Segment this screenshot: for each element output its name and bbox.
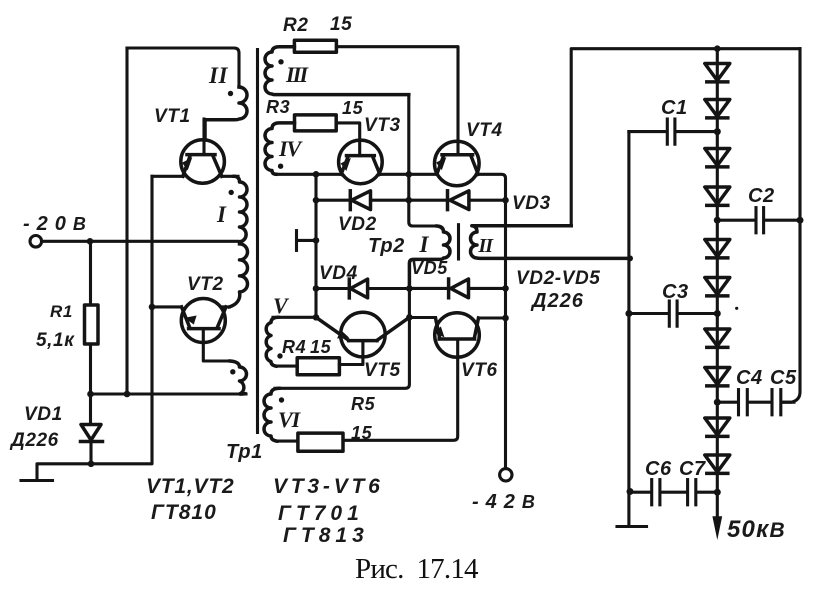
node VT2 emitter bus xyxy=(149,304,156,311)
HV rectifier column wire xyxy=(716,49,719,517)
svg-text:Тр1: Тр1 xyxy=(226,441,263,463)
svg-text:VT1: VT1 xyxy=(154,106,191,127)
wire input to winding I center tap xyxy=(42,240,238,243)
svg-text:15: 15 xyxy=(310,337,332,357)
wire VT2 collector to winding xyxy=(221,305,230,308)
svg-text:C6: C6 xyxy=(645,458,672,480)
node C2 tap xyxy=(714,217,721,224)
wire VT6 collector to -42V line xyxy=(479,316,506,319)
wire HV riser to ladder top xyxy=(571,49,800,226)
svg-text:Д226: Д226 xyxy=(9,430,59,451)
core of transformer Tr1 xyxy=(256,50,259,433)
transistor VT4 xyxy=(435,141,480,186)
node C4 C5 tap xyxy=(714,399,721,406)
terminal -42V xyxy=(500,469,512,481)
svg-text:R4: R4 xyxy=(282,337,306,357)
diode D2 ladder xyxy=(705,100,730,118)
svg-text:VT3-VT6: VT3-VT6 xyxy=(273,475,384,498)
node ladder top xyxy=(714,45,721,52)
svg-text:VD4: VD4 xyxy=(319,263,358,284)
svg-text:VT6: VT6 xyxy=(461,360,498,381)
wire R5 right to VT6 base xyxy=(343,339,458,440)
node VT5 collector junction xyxy=(406,314,413,321)
svg-text:C5: C5 xyxy=(770,367,797,389)
transformer Tr2 winding II xyxy=(471,226,629,259)
capacitor C4 xyxy=(717,390,770,415)
wire R1 bottom lead xyxy=(89,344,92,394)
diode D1 ladder xyxy=(705,64,730,82)
node VT6 collector junction xyxy=(502,315,509,322)
diode D8 ladder xyxy=(705,368,730,386)
svg-text:Тр2: Тр2 xyxy=(368,235,405,257)
svg-text:I: I xyxy=(216,202,227,227)
winding I upper half of Tr1 xyxy=(234,176,247,242)
transformer Tr2 winding I xyxy=(409,226,450,285)
transistor VT6 (inverted) xyxy=(434,313,480,358)
capacitor C2 xyxy=(717,208,800,233)
winding II of Tr1 (feedback to VT1 base) xyxy=(205,87,247,140)
wire left branch vertical (VD2 VD4 column) xyxy=(314,174,317,317)
winding III of Tr1 xyxy=(265,47,409,95)
transistor VT5 (inverted) xyxy=(316,312,409,357)
winding I lower half of Tr1 xyxy=(230,244,248,307)
resistor R2 xyxy=(294,40,336,52)
wire VT3 collector to VT4 emitter xyxy=(409,173,437,176)
node VD4 right xyxy=(406,285,413,292)
wire R1 top lead xyxy=(89,241,92,305)
diode D5 ladder xyxy=(705,240,730,258)
node left column winding II feed xyxy=(627,255,633,261)
wire VT4 collector to -42V vertical xyxy=(478,174,505,468)
wire VT3 collector to center node xyxy=(380,173,409,176)
polarity dot winding I upper xyxy=(229,190,234,195)
svg-text:Д226: Д226 xyxy=(530,290,584,312)
arrow 50kV output xyxy=(712,516,722,540)
wire center vertical (winding III bottom down to Tr2 winding I) xyxy=(409,95,438,226)
node R1 bottom / VD1 anode xyxy=(87,391,94,398)
svg-text:ГТ813: ГТ813 xyxy=(283,524,369,547)
wire VD5 node down through VT5 collector to winding VI xyxy=(275,288,409,388)
wire long bottom feedback (R1 node to winding bottom) xyxy=(91,392,247,395)
svg-text:R3: R3 xyxy=(266,97,290,117)
wire R3 to VT3 base xyxy=(336,123,360,156)
transistor VT3 xyxy=(339,140,383,184)
resistor R1 xyxy=(85,305,99,344)
core of transformer Tr2 xyxy=(457,225,460,259)
diode D7 ladder xyxy=(705,329,730,347)
ground right column xyxy=(617,525,647,528)
diode VD4 xyxy=(316,279,409,298)
node VD3 right xyxy=(502,197,509,204)
polarity dot lower feedback winding xyxy=(230,369,235,374)
svg-text:5,1к: 5,1к xyxy=(36,330,75,351)
capacitor C5 xyxy=(772,390,794,415)
wire to ground xyxy=(37,464,91,479)
wire VT1 emitter horizontal xyxy=(152,175,183,178)
node VT5 emitter junction xyxy=(313,314,320,321)
node C6 left xyxy=(627,488,634,495)
svg-text:VT1,VT2: VT1,VT2 xyxy=(146,475,234,498)
wire R5 left lead xyxy=(277,440,298,443)
node VD4 left xyxy=(313,285,320,292)
svg-text:-42В: -42В xyxy=(472,491,542,513)
diode VD3 xyxy=(409,191,506,210)
node VD2 right center tap xyxy=(406,197,413,204)
node VD2 left xyxy=(313,197,320,204)
wire HV ladder top bus xyxy=(783,49,800,403)
polarity dot winding VI xyxy=(279,397,284,402)
svg-text:50кВ: 50кВ xyxy=(727,516,786,543)
svg-text:III: III xyxy=(285,62,310,87)
svg-text:C7: C7 xyxy=(679,458,706,480)
svg-text:V: V xyxy=(273,293,290,318)
ground xyxy=(21,479,53,482)
svg-text:C3: C3 xyxy=(662,281,689,303)
capacitor C7 xyxy=(688,480,718,505)
diode VD2 xyxy=(316,191,409,210)
polarity dot winding II xyxy=(228,91,233,96)
speck artifact xyxy=(735,307,738,310)
svg-text:VD3: VD3 xyxy=(512,193,551,214)
diode D4 ladder xyxy=(705,187,730,205)
node rectangle left edge bottom xyxy=(124,391,131,398)
svg-text:VT5: VT5 xyxy=(364,360,401,381)
svg-text:IV: IV xyxy=(278,136,304,161)
node C1 tap xyxy=(714,128,721,135)
winding IV of Tr1 xyxy=(265,123,295,174)
svg-text:R2: R2 xyxy=(283,15,309,36)
wire collector frame left edge xyxy=(125,48,128,394)
wire R4 left lead xyxy=(276,365,297,368)
wire winding IV to VT3 emitter row xyxy=(276,173,341,176)
wire VT5 collector to VT6 emitter xyxy=(409,316,435,319)
node VD5 right xyxy=(502,285,509,292)
diode D3 ladder xyxy=(705,149,730,167)
svg-text:VD2-VD5: VD2-VD5 xyxy=(516,268,600,289)
resistor R4 xyxy=(297,358,339,375)
svg-text:ГТ810: ГТ810 xyxy=(151,501,217,524)
node R1 top xyxy=(87,238,94,245)
diode D10 ladder xyxy=(705,455,730,473)
svg-text:VT3: VT3 xyxy=(364,115,401,136)
winding feedback VT2 base (lower chain) xyxy=(230,361,247,394)
node VT3 collector / vertical xyxy=(406,171,413,178)
svg-text:VI: VI xyxy=(278,407,302,432)
svg-text:II: II xyxy=(208,63,229,88)
polarity dot winding V xyxy=(277,353,282,358)
node C2 right xyxy=(797,217,804,224)
node C3 tap xyxy=(714,310,721,317)
svg-text:C1: C1 xyxy=(661,97,688,119)
svg-text:VT4: VT4 xyxy=(466,120,503,141)
capacitor C6 xyxy=(631,480,686,505)
transistor VT1 xyxy=(181,119,225,183)
svg-text:15: 15 xyxy=(330,14,352,35)
wire R2 to VT4 base xyxy=(336,47,458,155)
capacitor C1 xyxy=(629,119,717,144)
svg-text:C2: C2 xyxy=(748,185,775,207)
wire VT1 collector to winding I top xyxy=(222,175,238,178)
wire collector frame top xyxy=(127,48,239,87)
wire VD1 cathode to emitter bus xyxy=(91,176,152,464)
svg-text:ГТ701: ГТ701 xyxy=(278,502,364,525)
svg-text:I: I xyxy=(419,232,430,257)
node C6 C7 tap xyxy=(714,489,721,496)
diode D9 ladder xyxy=(705,418,730,436)
svg-text:R1: R1 xyxy=(50,302,73,321)
wire VD1 anode xyxy=(89,394,92,424)
stub terminal near Tr2 xyxy=(298,239,316,242)
svg-text:R5: R5 xyxy=(351,394,376,414)
resistor R3 xyxy=(295,115,337,131)
stub plate bar xyxy=(295,231,298,251)
capacitor C3 xyxy=(629,301,717,326)
node stub junction xyxy=(313,237,320,244)
wire R4 right to VT5 base xyxy=(339,341,363,365)
diode VD5 xyxy=(409,279,505,298)
svg-text:-20В: -20В xyxy=(23,213,93,235)
svg-text:VT2: VT2 xyxy=(187,274,224,295)
winding V of Tr1 xyxy=(266,317,278,366)
diode VD1 xyxy=(81,425,103,465)
winding VI of Tr1 xyxy=(264,388,279,441)
terminal -20V input xyxy=(30,236,42,248)
diode D6 ladder xyxy=(705,278,730,296)
svg-text:Рис. 17.14: Рис. 17.14 xyxy=(355,553,479,585)
polarity dot winding IV xyxy=(278,164,283,169)
transistor VT2 xyxy=(181,299,230,362)
node left column C3 xyxy=(625,310,632,317)
node VD2 branch top xyxy=(313,171,320,178)
resistor R5 xyxy=(298,433,343,451)
wire VT2 row left xyxy=(152,305,182,308)
wire multiplier left column xyxy=(627,132,630,524)
wire winding V top to VT5 emitter row xyxy=(273,316,316,319)
svg-text:VD2: VD2 xyxy=(338,214,377,235)
svg-text:II: II xyxy=(478,235,495,257)
svg-text:15: 15 xyxy=(342,98,364,118)
polarity dot winding III xyxy=(278,59,283,64)
svg-text:C4: C4 xyxy=(736,367,763,389)
svg-text:VD1: VD1 xyxy=(24,404,63,425)
node VD1 cathode junction xyxy=(88,461,95,468)
